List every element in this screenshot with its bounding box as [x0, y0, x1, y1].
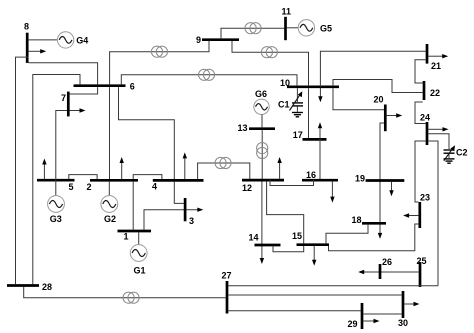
bridge wire 2-4: [133, 175, 162, 179]
generator G4: [29, 32, 89, 48]
svg-text:26: 26: [382, 257, 392, 267]
svg-text:29: 29: [348, 319, 358, 329]
bus 5: [37, 180, 75, 192]
bus 28: [7, 282, 52, 292]
transformer T1 (6-9): [151, 46, 167, 57]
load arrow bus 8: [29, 49, 47, 53]
bus 16: [302, 170, 338, 180]
transformer T6 (12-13): [257, 143, 268, 159]
generator G2: [101, 182, 118, 224]
bus 3: [185, 198, 194, 226]
bus 25: [417, 256, 427, 287]
svg-text:G2: G2: [104, 214, 116, 224]
load arrow bus 24: [428, 127, 448, 131]
generator G6: [254, 89, 269, 115]
bridge wire 14-15: [273, 246, 304, 252]
bus 12: [242, 180, 284, 193]
load arrow bus 4: [183, 152, 187, 179]
svg-text:G3: G3: [50, 214, 62, 224]
wire 6-7: [70, 87, 98, 94]
bus 11: [282, 6, 292, 40]
svg-text:22: 22: [430, 88, 440, 98]
svg-text:14: 14: [249, 233, 259, 243]
bus 24: [420, 112, 430, 145]
bus 30: [398, 291, 408, 328]
wire 24-25: [428, 141, 438, 286]
wire 23-24: [415, 141, 426, 202]
svg-text:1: 1: [124, 232, 129, 242]
ground (C1): [292, 113, 303, 117]
svg-text:9: 9: [196, 35, 201, 45]
wire 1-3 and load arrow bus 3: [144, 208, 203, 230]
wire 6-9: [110, 41, 209, 84]
generator G1: [130, 232, 147, 275]
svg-text:6: 6: [130, 82, 135, 92]
wire 29-30: [363, 313, 401, 315]
svg-text:13: 13: [238, 123, 248, 133]
arrow of variable capacitor C1: [290, 91, 303, 110]
wire 6-8: [29, 63, 98, 85]
svg-text:24: 24: [420, 112, 430, 122]
wire 5-7 and load arrow bus 7: [56, 108, 86, 196]
wire 2-6: [109, 87, 111, 179]
load arrow bus 15: [312, 246, 316, 266]
wire 4-6: [119, 87, 175, 179]
bus 27: [222, 271, 232, 314]
bus 8: [24, 22, 29, 63]
svg-text:20: 20: [374, 95, 384, 105]
svg-text:4: 4: [152, 182, 157, 192]
bus 23: [420, 193, 430, 229]
wire 8-28: [16, 57, 29, 284]
bus 10: [280, 78, 339, 88]
ground (C2): [444, 159, 455, 163]
svg-text:5: 5: [69, 182, 74, 192]
svg-text:18: 18: [352, 215, 362, 225]
bus 29: [348, 303, 363, 329]
wire 10-20: [333, 88, 384, 110]
svg-text:G4: G4: [76, 36, 88, 46]
wire 10-22: [333, 80, 423, 93]
bus 26: [380, 257, 392, 279]
svg-text:2: 2: [87, 182, 92, 192]
svg-text:C2: C2: [456, 148, 468, 158]
load arrow bus 21: [428, 54, 448, 58]
wire 27-30: [228, 294, 401, 296]
svg-text:8: 8: [24, 22, 29, 32]
transformer T4 (6-10): [199, 69, 215, 80]
svg-text:23: 23: [420, 193, 430, 203]
svg-text:27: 27: [222, 271, 232, 281]
bridge wire 2-5: [69, 175, 97, 179]
wire G6-13: [261, 114, 263, 127]
wire 15-23: [329, 224, 419, 251]
svg-text:11: 11: [282, 6, 292, 16]
svg-text:17: 17: [293, 130, 303, 140]
generator G5: [287, 20, 332, 36]
wire 25-27: [228, 285, 438, 287]
bus 14: [249, 233, 281, 246]
wire 10-17: [308, 88, 310, 138]
wire 9-11: [221, 28, 284, 38]
bus 17: [293, 130, 327, 140]
load arrow bus 2: [120, 157, 124, 179]
bus 1: [118, 231, 152, 242]
bus 20: [374, 95, 386, 132]
svg-text:30: 30: [398, 318, 408, 328]
bus 22: [424, 81, 440, 100]
transformer T5 (4-12): [215, 157, 231, 168]
wire 28-27: [24, 287, 226, 298]
wire 12-14 and load arrow bus 14: [260, 182, 264, 265]
bus 9: [196, 35, 239, 45]
load arrow bus 30: [404, 302, 419, 306]
svg-text:12: 12: [242, 183, 252, 193]
svg-text:28: 28: [42, 282, 52, 292]
wire 1-2: [132, 182, 134, 230]
wire 22-24: [415, 102, 426, 124]
bus 2: [87, 180, 139, 192]
wire 21-22: [415, 60, 426, 83]
wire 12-13: [261, 130, 263, 179]
wire 10-21: [320, 51, 425, 87]
load arrow bus 29: [363, 319, 379, 323]
svg-text:G6: G6: [255, 89, 267, 99]
bus 19: [355, 174, 404, 184]
load arrow bus 12: [277, 157, 281, 179]
load arrow bus 17 and wire 16-17: [318, 122, 322, 179]
wire 12-15: [267, 182, 304, 244]
wire 27-29: [228, 310, 360, 312]
svg-text:21: 21: [431, 61, 441, 71]
svg-text:G5: G5: [320, 23, 332, 33]
load arrow bus 19: [389, 182, 393, 196]
svg-text:10: 10: [280, 78, 290, 88]
wire 6-28: [33, 75, 80, 285]
load arrow bus 16: [330, 182, 334, 203]
wire 15-18: [326, 225, 368, 244]
transformer T3 (9-11): [245, 23, 261, 34]
wire 25-26 and load arrow bus 26: [358, 270, 419, 274]
svg-text:7: 7: [61, 93, 66, 103]
svg-text:G1: G1: [134, 266, 146, 276]
svg-text:25: 25: [417, 256, 427, 266]
generator G3: [48, 196, 65, 224]
arrow of variable capacitor C2: [444, 145, 455, 161]
load arrow bus 23: [403, 213, 418, 217]
bus 18: [352, 215, 387, 225]
svg-text:15: 15: [292, 231, 302, 241]
wire 3-4: [174, 182, 184, 204]
bridge wire 12-16: [270, 180, 314, 186]
capacitor C1: [278, 88, 303, 112]
load arrow bus 20: [387, 113, 403, 117]
svg-text:3: 3: [189, 216, 194, 226]
transformer T7 (28-27): [123, 292, 139, 303]
load arrow bus 5: [42, 159, 46, 180]
capacitor C2: [428, 134, 467, 158]
bus 21: [427, 44, 441, 71]
wire 6-10: [121, 75, 297, 86]
wire 19-20 and 18-19 and load arrow bus 18: [378, 123, 384, 239]
bus 13: [238, 123, 276, 133]
load arrow bus 10: [318, 88, 322, 102]
svg-text:19: 19: [355, 174, 365, 184]
bus 4: [152, 180, 204, 191]
svg-text:16: 16: [306, 170, 316, 180]
bus 15: [292, 231, 329, 245]
bus 6: [74, 82, 135, 92]
wire 4-12: [198, 163, 250, 179]
wire 9-10: [232, 41, 309, 85]
svg-text:C1: C1: [278, 100, 290, 110]
transformer T2 (9-10): [261, 47, 277, 58]
bus 7: [61, 92, 68, 117]
